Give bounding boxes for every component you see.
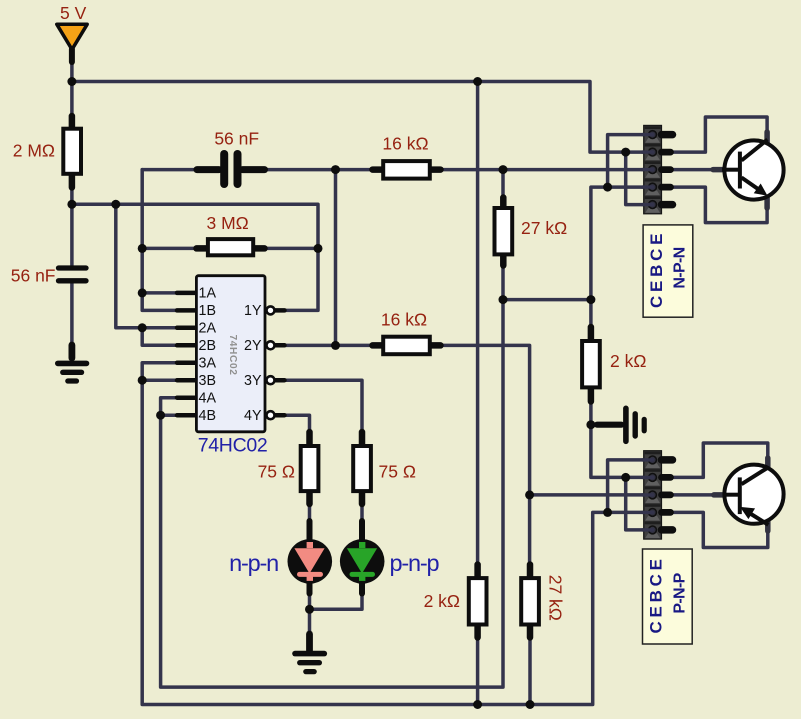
svg-text:n-p-n: n-p-n [229,550,278,576]
svg-text:4Y: 4Y [244,408,262,424]
svg-text:56 nF: 56 nF [214,129,259,149]
svg-text:2B: 2B [199,338,217,354]
svg-text:2 kΩ: 2 kΩ [424,591,460,611]
svg-text:1A: 1A [199,286,217,302]
svg-text:N-P-N: N-P-N [672,247,689,288]
svg-text:27 kΩ: 27 kΩ [546,575,566,621]
svg-text:3B: 3B [199,373,217,389]
svg-text:56 nF: 56 nF [11,266,56,286]
svg-text:1Y: 1Y [244,303,262,319]
svg-text:5 V: 5 V [60,3,87,23]
svg-text:3 MΩ: 3 MΩ [207,213,249,233]
svg-text:P-N-P: P-N-P [671,572,688,613]
svg-text:74HC02: 74HC02 [227,335,238,376]
svg-text:1B: 1B [199,303,217,319]
svg-text:3Y: 3Y [244,373,262,389]
svg-text:4B: 4B [199,408,217,424]
svg-text:2 kΩ: 2 kΩ [610,351,646,371]
svg-text:16 kΩ: 16 kΩ [382,134,428,154]
svg-text:2Y: 2Y [244,338,262,354]
svg-text:27 kΩ: 27 kΩ [521,218,567,238]
svg-text:16 kΩ: 16 kΩ [381,310,427,330]
svg-text:3A: 3A [199,356,217,372]
svg-text:2A: 2A [199,321,217,337]
svg-text:74HC02: 74HC02 [198,435,268,457]
svg-text:75 Ω: 75 Ω [258,462,295,482]
svg-text:75 Ω: 75 Ω [379,462,416,482]
svg-text:p-n-p: p-n-p [390,550,440,576]
svg-text:C E B C E: C E B C E [647,559,666,633]
svg-text:C E B C E: C E B C E [647,234,666,308]
svg-text:4A: 4A [199,391,217,407]
svg-text:2 MΩ: 2 MΩ [13,141,55,161]
